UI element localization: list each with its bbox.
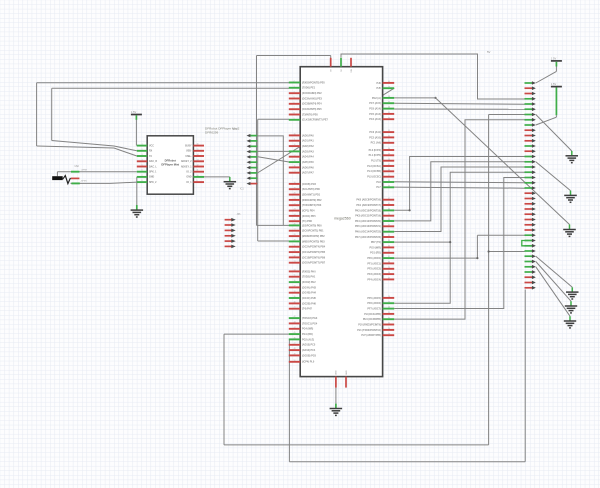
svg-text:3: 3 [294,86,295,88]
svg-text:11: 11 [197,170,199,172]
svg-text:37: 37 [294,286,296,288]
svg-text:49: 49 [294,354,296,356]
svg-text:(T1) PD6: (T1) PD6 [302,220,313,223]
svg-text:43: 43 [388,185,390,187]
svg-text:PG4 (WR): PG4 (WR) [302,328,313,331]
svg-text:(T4) PH7: (T4) PH7 [302,308,313,311]
svg-text:9: 9 [197,180,198,182]
svg-text:PJ6: PJ6 [376,82,381,85]
svg-text:PG1 (RD): PG1 (RD) [370,252,381,255]
svg-text:34: 34 [388,240,390,242]
svg-text:PL5 (OC5C): PL5 (OC5C) [367,176,381,179]
svg-text:PF6 (ADC6): PF6 (ADC6) [367,302,381,305]
svg-text:(AD5) PA5: (AD5) PA5 [302,161,314,164]
svg-text:46: 46 [388,169,390,171]
svg-text:22: 22 [294,203,296,205]
svg-text:18: 18 [294,182,296,184]
svg-text:(OC0B) PG5: (OC0B) PG5 [302,354,317,357]
svg-text:VIN: VIN [351,69,353,73]
svg-text:(ICP1) PD4: (ICP1) PD4 [302,210,315,213]
svg-text:DFR0299: DFR0299 [205,131,219,135]
svg-text:DFRobot: DFRobot [165,158,176,162]
svg-text:37: 37 [388,224,390,226]
svg-text:6: 6 [294,102,295,104]
svg-text:GND: GND [336,370,338,375]
svg-text:+SPKR: +SPKR [81,170,88,172]
svg-text:54: 54 [388,117,390,119]
svg-text:48: 48 [388,159,390,161]
svg-text:23: 23 [388,312,390,314]
svg-text:PF4 (ADC4): PF4 (ADC4) [367,278,381,281]
svg-text:20: 20 [294,193,296,195]
svg-text:IO_2: IO_2 [187,172,193,174]
svg-text:PK2 (ADC10/PCINT18): PK2 (ADC10/PCINT18) [355,209,381,212]
svg-text:(TXD1/INT3) PD3: (TXD1/INT3) PD3 [302,204,322,207]
svg-text:(OC2A/PCINT4) PB4: (OC2A/PCINT4) PB4 [302,246,326,249]
svg-text:41: 41 [388,203,390,205]
svg-text:4: 4 [294,91,295,93]
svg-text:42: 42 [294,316,296,318]
svg-text:45: 45 [388,175,390,177]
svg-text:U$2: U$2 [75,165,80,168]
svg-text:PG2 (A): PG2 (A) [372,97,381,100]
svg-text:(OC1A/PCINT5) PB5: (OC1A/PCINT5) PB5 [302,251,326,254]
svg-text:(OC1B/PCINT6) PB6: (OC1B/PCINT6) PB6 [302,256,326,259]
svg-text:(AD2) PA2: (AD2) PA2 [302,145,314,148]
svg-text:48: 48 [294,348,296,350]
svg-text:2: 2 [294,81,295,83]
svg-text:(AD0) PA0: (AD0) PA0 [302,134,314,137]
svg-text:ADKEY_1: ADKEY_1 [181,165,192,168]
svg-text:19: 19 [388,333,390,335]
svg-text:(TXD2) PH1: (TXD2) PH1 [302,276,316,279]
svg-text:(RXD2) PH0: (RXD2) PH0 [302,270,316,273]
svg-text:57: 57 [388,101,390,103]
svg-text:12: 12 [294,144,296,146]
svg-text:PC3 (A11): PC3 (A11) [369,131,381,134]
svg-text:19: 19 [294,187,296,189]
svg-text:PK3 (ADC11/PCINT19): PK3 (ADC11/PCINT19) [355,215,381,218]
svg-text:7: 7 [294,107,295,109]
svg-text:TX: TX [149,156,152,158]
svg-text:(RXD0/PCINT8) PE0: (RXD0/PCINT8) PE0 [302,81,325,84]
svg-text:43: 43 [294,322,296,324]
svg-text:39: 39 [294,296,296,298]
svg-text:PG1 (RD): PG1 (RD) [302,333,313,336]
svg-text:58: 58 [388,96,390,98]
svg-text:38: 38 [388,219,390,221]
svg-text:42: 42 [388,198,390,200]
svg-text:26: 26 [388,296,390,298]
svg-text:22: 22 [388,317,390,319]
svg-text:DFPlayer Mini: DFPlayer Mini [161,162,179,166]
svg-text:4: 4 [142,159,143,161]
svg-text:(TOSC2) PG3: (TOSC2) PG3 [302,317,318,320]
svg-text:PK5 (ADC13/PCINT21): PK5 (ADC13/PCINT21) [355,225,381,228]
svg-text:14: 14 [294,155,296,157]
svg-text:27: 27 [388,278,390,280]
svg-text:(OC0B) PG5: (OC0B) PG5 [302,183,317,186]
svg-text:(SCL/INT0) PD0: (SCL/INT0) PD0 [302,188,321,191]
svg-text:PG0 (WR): PG0 (WR) [370,246,381,249]
svg-text:28: 28 [388,272,390,274]
svg-text:41: 41 [294,307,296,309]
svg-text:44: 44 [294,327,296,329]
svg-text:PC5 (A13): PC5 (A13) [369,113,381,116]
svg-text:40: 40 [294,302,296,304]
svg-text:PH (OC4A/PB): PH (OC4A/PB) [364,313,381,316]
svg-text:(XCK0/AIN0) PE2: (XCK0/AIN0) PE2 [302,92,322,95]
svg-text:PF3 (ADC3): PF3 (ADC3) [367,273,381,276]
svg-text:53: 53 [388,130,390,132]
svg-text:PK4 (ADC12/PCINT20): PK4 (ADC12/PCINT20) [355,220,381,223]
svg-text:26: 26 [294,224,296,226]
svg-text:(AD13) PC5: (AD13) PC5 [302,344,316,347]
svg-text:(MISO/PCINT3) PB3: (MISO/PCINT3) PB3 [302,240,325,243]
svg-text:PF0 (ADC0): PF0 (ADC0) [367,257,381,260]
svg-text:SPK_2: SPK_2 [149,182,157,184]
svg-text:59: 59 [388,86,390,88]
svg-text:29: 29 [294,240,296,242]
svg-text:20: 20 [388,328,390,330]
svg-text:36: 36 [388,230,390,232]
svg-text:(XCK2) PH2: (XCK2) PH2 [302,281,316,284]
svg-text:45: 45 [294,332,296,334]
svg-text:PL7: PL7 [376,186,381,189]
svg-text:(AD1) PA1: (AD1) PA1 [302,140,314,143]
svg-text:11: 11 [294,139,296,141]
svg-text:GND: GND [149,177,154,179]
svg-text:PJ5: PJ5 [376,87,381,90]
svg-text:36: 36 [294,280,296,282]
svg-text:(AD7) PA7: (AD7) PA7 [302,172,314,175]
svg-text:10: 10 [197,175,199,177]
svg-text:VCC: VCC [149,145,154,147]
svg-text:PD7 (T0): PD7 (T0) [371,241,381,244]
svg-text:10: 10 [294,134,296,136]
svg-text:(OC3B/INT4) PE4: (OC3B/INT4) PE4 [302,103,322,106]
svg-text:47: 47 [294,343,296,345]
svg-text:GND: GND [186,177,191,179]
svg-text:PK7 (ADC15/PCINT23): PK7 (ADC15/PCINT23) [355,236,381,239]
svg-text:PL4 (OC5B): PL4 (OC5B) [367,170,381,173]
svg-text:12: 12 [197,165,199,167]
svg-text:16: 16 [294,166,296,168]
svg-text:7: 7 [142,175,143,177]
svg-text:PK0 (ADC8/PCINT16): PK0 (ADC8/PCINT16) [356,199,381,202]
svg-text:(TOSC1) PG4: (TOSC1) PG4 [302,322,318,325]
svg-text:PG2 (ALE): PG2 (ALE) [302,338,314,341]
svg-text:21: 21 [388,323,390,325]
svg-text:USB+: USB+ [185,156,192,158]
svg-text:PJ0 (RXD3/PCINT9): PJ0 (RXD3/PCINT9) [358,323,381,326]
svg-text:(T3/INT6) PE6: (T3/INT6) PE6 [302,113,318,116]
svg-text:PF2 (ADC2): PF2 (ADC2) [367,268,381,271]
svg-text:(OC4B) PH4: (OC4B) PH4 [302,292,316,295]
svg-text:60: 60 [388,81,390,83]
svg-text:BUSY: BUSY [185,145,192,147]
svg-text:mega2560: mega2560 [334,217,351,221]
svg-text:44: 44 [388,180,390,182]
svg-text:PC7 (A15): PC7 (A15) [369,102,381,105]
svg-text:PF1 (ADC1): PF1 (ADC1) [367,262,381,265]
svg-text:2: 2 [142,149,143,151]
svg-text:(OC3C/INT5) PE5: (OC3C/INT5) PE5 [302,108,322,111]
svg-text:1 5V: 1 5V [551,56,557,60]
svg-text:39: 39 [388,214,390,216]
svg-text:DAC_L: DAC_L [149,165,157,168]
svg-text:(OC3A/AIN1) PE3: (OC3A/AIN1) PE3 [302,97,323,100]
svg-text:40: 40 [388,209,390,211]
svg-text:25: 25 [388,301,390,303]
svg-text:PL3 (OC5A): PL3 (OC5A) [367,165,381,168]
svg-text:PJ7 (ABCDY/PB): PJ7 (ABCDY/PB) [361,334,381,337]
svg-text:16: 16 [197,144,199,146]
svg-text:51: 51 [388,141,390,143]
svg-text:PF5 (ADC5): PF5 (ADC5) [367,297,381,300]
svg-text:28: 28 [294,234,296,236]
svg-text:(RXD1/INT2) PD2: (RXD1/INT2) PD2 [302,199,322,202]
svg-text:5: 5 [294,97,295,99]
svg-text:PJ1 (TXD3/PCINT10): PJ1 (TXD3/PCINT10) [357,329,381,332]
svg-text:PC6 (A14): PC6 (A14) [369,108,381,111]
svg-text:5V: 5V [487,50,491,54]
svg-text:17: 17 [294,171,296,173]
svg-text:(TXD0) PE1: (TXD0) PE1 [302,87,316,90]
svg-text:PL1 (ICP5): PL1 (ICP5) [369,154,381,157]
svg-text:33: 33 [294,261,296,263]
svg-text:38: 38 [294,291,296,293]
svg-text:GND: GND [346,370,348,375]
svg-text:24: 24 [294,214,296,216]
svg-text:1 5V: 1 5V [131,110,137,114]
svg-text:31: 31 [388,256,390,258]
svg-text:IO_1: IO_1 [187,182,193,184]
svg-text:(XCK1) PD5: (XCK1) PD5 [302,215,316,218]
svg-text:14: 14 [197,154,199,156]
svg-text:(MOSI/PCINT2) PB2: (MOSI/PCINT2) PB2 [302,235,325,238]
svg-text:23: 23 [294,209,296,211]
svg-text:(AD4) PA4: (AD4) PA4 [302,156,314,159]
svg-text:(AD6) PA6: (AD6) PA6 [302,166,314,169]
svg-text:(CLKO/ICP3/INT7) PE7: (CLKO/ICP3/INT7) PE7 [302,119,329,122]
svg-text:(OC4A) PH3: (OC4A) PH3 [302,286,316,289]
svg-text:(OC0A/PCINT7) PB7: (OC0A/PCINT7) PB7 [302,262,326,265]
svg-text:21: 21 [294,198,296,200]
svg-text:PL0 (ICP4): PL0 (ICP4) [369,149,381,152]
svg-text:34: 34 [294,270,296,272]
svg-text:35: 35 [294,275,296,277]
svg-text:47: 47 [388,164,390,166]
svg-text:(ICP4) PL0: (ICP4) PL0 [302,361,315,364]
svg-text:5: 5 [142,165,143,167]
svg-text:32: 32 [294,256,296,258]
svg-text:33: 33 [388,246,390,248]
svg-text:JP1: JP1 [237,213,242,216]
svg-text:32: 32 [388,251,390,253]
svg-text:SPK_1: SPK_1 [149,172,157,174]
svg-text:(OC2B) PH6: (OC2B) PH6 [302,302,316,305]
svg-text:(SCK/PCINT1) PB1: (SCK/PCINT1) PB1 [302,230,324,233]
svg-text:(OC4C) PH5: (OC4C) PH5 [302,297,316,300]
svg-text:PC2 (A10): PC2 (A10) [369,136,381,139]
svg-text:24: 24 [388,307,390,309]
svg-text:29: 29 [388,267,390,269]
svg-text:(SS/PCINT0) PB0: (SS/PCINT0) PB0 [302,224,322,227]
svg-text:RX: RX [149,151,153,153]
svg-text:8: 8 [142,180,143,182]
svg-text:PL2 (T5): PL2 (T5) [371,160,381,163]
svg-text:46: 46 [294,338,296,340]
svg-text:-SPKR: -SPKR [81,181,88,183]
svg-text:52: 52 [388,136,390,138]
svg-text:13: 13 [294,150,296,152]
svg-text:49: 49 [388,153,390,155]
svg-text:27: 27 [294,229,296,231]
svg-text:(AD12) PC4: (AD12) PC4 [302,349,316,352]
svg-text:9: 9 [294,118,295,120]
svg-text:15: 15 [294,160,296,162]
svg-text:50: 50 [294,360,296,362]
svg-text:PH4 (OC4B/PB): PH4 (OC4B/PB) [363,318,381,321]
svg-text:(SDA/INT1) PD1: (SDA/INT1) PD1 [302,194,321,197]
svg-text:8: 8 [294,113,295,115]
svg-text:PC4 (A12): PC4 (A12) [369,118,381,121]
svg-text:USB-: USB- [186,151,192,153]
svg-text:PL6: PL6 [376,181,381,184]
svg-text:PK1 (ADC9/PCINT17): PK1 (ADC9/PCINT17) [356,204,381,207]
svg-text:ADKEY_2: ADKEY_2 [181,160,192,163]
svg-text:55: 55 [388,112,390,114]
svg-text:30: 30 [388,262,390,264]
svg-text:30: 30 [294,245,296,247]
svg-text:1: 1 [142,144,143,146]
svg-text:13: 13 [197,159,199,161]
svg-text:56: 56 [388,107,390,109]
svg-text:3: 3 [142,154,143,156]
svg-text:SV1: SV1 [233,128,238,131]
svg-text:DAC_R: DAC_R [149,160,157,163]
svg-text:PK6 (ADC14/PCINT22): PK6 (ADC14/PCINT22) [355,231,381,234]
svg-text:50: 50 [388,148,390,150]
svg-text:PF7 (ADC7): PF7 (ADC7) [367,308,381,311]
svg-text:1 5V: 1 5V [551,82,557,86]
svg-text:PC1 (A9): PC1 (A9) [371,142,381,145]
svg-text:6: 6 [142,170,143,172]
svg-text:15: 15 [197,149,199,151]
svg-text:(AD3) PA3: (AD3) PA3 [302,150,314,153]
svg-text:35: 35 [388,235,390,237]
svg-text:25: 25 [294,219,296,221]
svg-text:IC1: IC1 [240,188,244,191]
svg-text:31: 31 [294,250,296,252]
